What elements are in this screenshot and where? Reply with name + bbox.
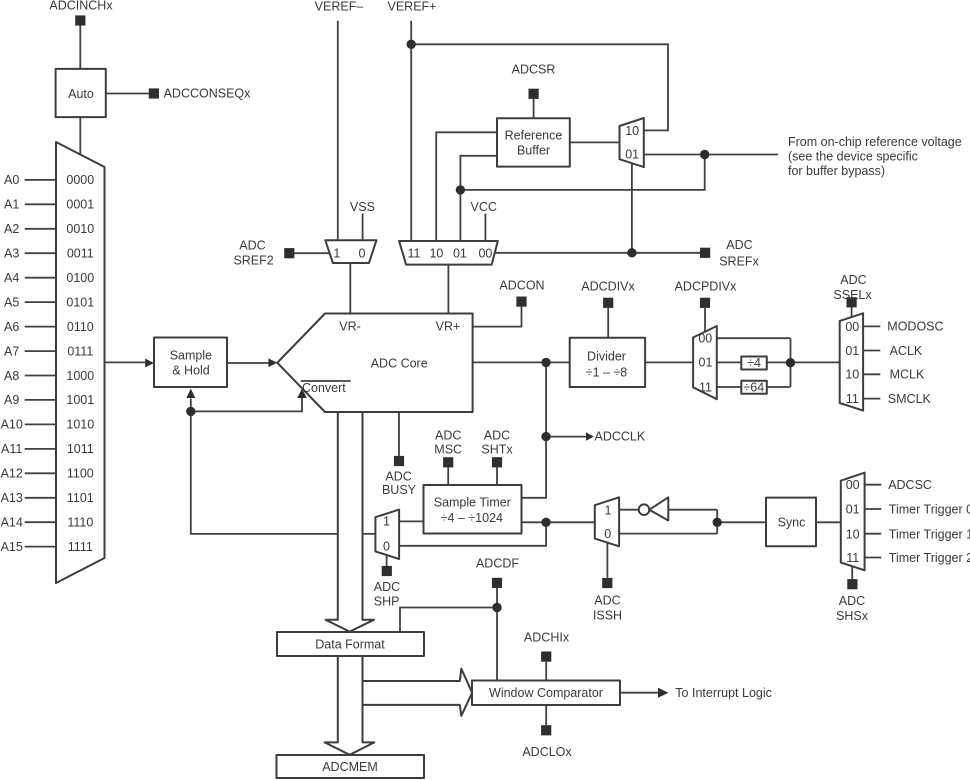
svg-text:1: 1 [333, 247, 340, 261]
svg-text:0111: 0111 [67, 344, 93, 358]
svg-text:A10: A10 [1, 418, 23, 432]
svg-text:Convert: Convert [302, 381, 346, 395]
svg-text:÷4 – ÷1024: ÷4 – ÷1024 [441, 511, 503, 525]
svg-text:0: 0 [604, 527, 611, 541]
svg-text:ADCINCHx: ADCINCHx [49, 0, 113, 13]
svg-text:11: 11 [699, 380, 712, 394]
svg-text:ADCCLK: ADCCLK [595, 430, 646, 444]
svg-text:VEREF+: VEREF+ [388, 0, 437, 14]
svg-text:Data Format: Data Format [315, 638, 385, 652]
svg-text:00: 00 [698, 332, 712, 346]
svg-text:Sample: Sample [170, 349, 212, 363]
svg-text:0: 0 [383, 539, 390, 553]
svg-text:0010: 0010 [66, 222, 94, 236]
svg-text:MCLK: MCLK [890, 368, 925, 382]
svg-text:SSELx: SSELx [833, 288, 872, 302]
svg-text:0011: 0011 [67, 247, 94, 261]
svg-text:ADC: ADC [484, 428, 510, 442]
svg-text:ADCSR: ADCSR [512, 63, 556, 77]
svg-text:ADCCONSEQx: ADCCONSEQx [164, 87, 252, 101]
svg-text:1001: 1001 [66, 393, 94, 407]
svg-text:ADC: ADC [385, 470, 411, 484]
svg-text:(see the device specific: (see the device specific [788, 149, 918, 163]
svg-text:ADCDIVx: ADCDIVx [581, 279, 635, 293]
svg-text:A5: A5 [4, 295, 19, 309]
svg-text:A7: A7 [4, 344, 19, 358]
svg-text:SHSx: SHSx [836, 609, 869, 623]
svg-text:VCC: VCC [470, 200, 496, 214]
svg-text:VSS: VSS [350, 200, 375, 214]
svg-text:& Hold: & Hold [172, 364, 210, 378]
svg-text:0110: 0110 [67, 320, 94, 334]
svg-text:ADC: ADC [840, 273, 866, 287]
svg-text:Window Comparator: Window Comparator [489, 686, 603, 700]
svg-text:÷1 – ÷8: ÷1 – ÷8 [586, 366, 628, 380]
svg-text:SHTx: SHTx [481, 442, 513, 456]
svg-text:11: 11 [846, 392, 859, 406]
svg-text:ADC Core: ADC Core [371, 357, 428, 371]
svg-text:0000: 0000 [66, 173, 94, 187]
svg-text:A14: A14 [1, 516, 23, 530]
svg-text:ADCHIx: ADCHIx [524, 630, 570, 644]
svg-text:SREF2: SREF2 [233, 253, 273, 267]
svg-text:for buffer bypass): for buffer bypass) [788, 164, 885, 178]
svg-text:ADCSC: ADCSC [888, 478, 932, 492]
svg-text:ADCPDIVx: ADCPDIVx [675, 279, 738, 293]
svg-text:1: 1 [383, 514, 390, 528]
svg-text:To Interrupt Logic: To Interrupt Logic [675, 686, 772, 700]
svg-text:ACLK: ACLK [890, 344, 923, 358]
svg-text:MSC: MSC [434, 442, 462, 456]
svg-text:A12: A12 [1, 467, 23, 481]
svg-text:ADC: ADC [839, 594, 865, 608]
svg-text:10: 10 [846, 527, 860, 541]
svg-text:A13: A13 [1, 491, 23, 505]
svg-text:ADCMEM: ADCMEM [322, 760, 378, 774]
svg-text:01: 01 [453, 247, 467, 261]
svg-text:BUSY: BUSY [382, 483, 417, 497]
svg-text:1101: 1101 [67, 491, 94, 505]
svg-text:Sample Timer: Sample Timer [434, 496, 511, 510]
svg-text:1110: 1110 [67, 516, 93, 530]
svg-text:A8: A8 [4, 369, 19, 383]
svg-text:ADCDF: ADCDF [476, 556, 519, 570]
svg-text:0101: 0101 [66, 295, 94, 309]
svg-text:MODOSC: MODOSC [887, 320, 943, 334]
svg-text:A6: A6 [4, 320, 19, 334]
svg-text:ADC: ADC [374, 580, 400, 594]
svg-text:A1: A1 [4, 198, 19, 212]
svg-text:Timer Trigger 1: Timer Trigger 1 [889, 527, 970, 541]
svg-text:A2: A2 [4, 222, 19, 236]
svg-text:Buffer: Buffer [517, 144, 550, 158]
svg-text:1111: 1111 [68, 540, 93, 554]
svg-text:1011: 1011 [67, 442, 94, 456]
svg-text:0001: 0001 [66, 198, 94, 212]
svg-text:A0: A0 [4, 173, 19, 187]
svg-text:1010: 1010 [66, 418, 94, 432]
svg-text:A4: A4 [4, 271, 19, 285]
svg-text:÷4: ÷4 [747, 356, 761, 370]
svg-text:SMCLK: SMCLK [888, 392, 932, 406]
svg-text:Timer Trigger 2: Timer Trigger 2 [889, 551, 970, 565]
svg-text:From on-chip reference voltage: From on-chip reference voltage [788, 135, 962, 149]
svg-text:1000: 1000 [66, 369, 94, 383]
svg-text:÷64: ÷64 [743, 380, 764, 394]
svg-text:Divider: Divider [587, 349, 626, 363]
svg-text:A9: A9 [4, 393, 19, 407]
svg-text:ADC: ADC [726, 238, 752, 252]
svg-text:A11: A11 [1, 442, 22, 456]
svg-text:01: 01 [625, 148, 639, 162]
svg-text:1: 1 [605, 503, 612, 517]
svg-text:01: 01 [846, 503, 860, 517]
svg-text:ADC: ADC [435, 428, 461, 442]
svg-text:10: 10 [429, 247, 443, 261]
svg-text:0: 0 [359, 247, 366, 261]
svg-text:ISSH: ISSH [593, 608, 622, 622]
svg-text:SREFx: SREFx [719, 254, 759, 268]
svg-text:1100: 1100 [67, 467, 94, 481]
svg-text:0100: 0100 [66, 271, 94, 285]
svg-text:Reference: Reference [505, 128, 563, 142]
svg-text:Sync: Sync [778, 515, 806, 529]
svg-text:Timer Trigger 0: Timer Trigger 0 [889, 503, 970, 517]
svg-text:A3: A3 [4, 247, 19, 261]
svg-text:VEREF–: VEREF– [315, 0, 364, 14]
svg-text:10: 10 [845, 368, 859, 382]
svg-text:ADCON: ADCON [499, 278, 544, 292]
svg-text:ADC: ADC [594, 593, 620, 607]
svg-text:00: 00 [846, 478, 860, 492]
svg-text:00: 00 [478, 247, 492, 261]
svg-text:10: 10 [625, 124, 639, 138]
svg-text:Auto: Auto [68, 87, 94, 101]
svg-text:ADCLOx: ADCLOx [522, 745, 572, 759]
svg-text:ADC: ADC [239, 238, 265, 252]
svg-text:11: 11 [846, 551, 859, 565]
svg-text:A15: A15 [1, 540, 23, 554]
svg-text:11: 11 [408, 247, 421, 261]
svg-text:VR+: VR+ [436, 319, 461, 333]
svg-text:00: 00 [845, 320, 859, 334]
svg-text:01: 01 [699, 356, 713, 370]
svg-text:01: 01 [845, 344, 859, 358]
svg-text:VR-: VR- [339, 319, 361, 333]
svg-text:SHP: SHP [374, 594, 400, 608]
